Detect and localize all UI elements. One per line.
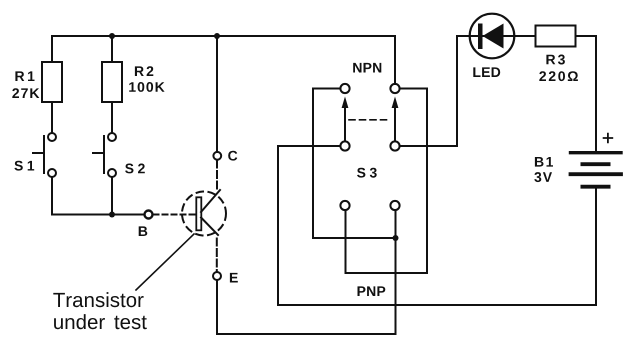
label S3 bbox=[357, 168, 377, 178]
resistor R3 bbox=[536, 26, 576, 47]
label 27K bbox=[12, 88, 39, 98]
wire S1 to base node bbox=[52, 177, 144, 215]
node junction E-net bbox=[393, 235, 399, 241]
node B terminal bbox=[145, 211, 153, 219]
wire top rail bbox=[52, 36, 395, 84]
battery B1 bbox=[571, 134, 622, 187]
wire dashed base lead bbox=[154, 214, 197, 216]
label E bbox=[230, 273, 238, 283]
wire E-net vertical bbox=[395, 210, 397, 334]
label Transistor bbox=[53, 292, 143, 307]
label R2 bbox=[135, 66, 153, 76]
label PNP bbox=[358, 286, 386, 296]
switch S2 bbox=[93, 133, 116, 177]
resistor R2 bbox=[102, 62, 122, 102]
label B1 bbox=[535, 157, 553, 167]
wire collector column stub bbox=[216, 36, 218, 152]
label B bbox=[139, 226, 148, 236]
wire right pole to LED bbox=[400, 36, 457, 146]
wire NPN-right contact to PNP-left contact bbox=[346, 89, 428, 274]
wire E to emitter net bbox=[217, 280, 396, 334]
wire R1 to S1 bbox=[51, 102, 53, 133]
label R3 bbox=[546, 55, 565, 65]
label 100K bbox=[129, 82, 164, 92]
node junction base bbox=[109, 212, 115, 218]
node junction C/top rail bbox=[214, 33, 220, 39]
wire dashed emitter lead bbox=[216, 239, 218, 272]
wire R3 to battery positive bbox=[576, 36, 597, 151]
label under test bbox=[54, 314, 147, 329]
label S1 bbox=[14, 161, 34, 171]
wire pointer to transistor bbox=[136, 234, 194, 290]
node junction R2/top rail bbox=[109, 33, 115, 39]
label 220ohm bbox=[539, 71, 578, 81]
node E terminal bbox=[213, 272, 221, 280]
wire R2 to S2 bbox=[111, 102, 113, 133]
wire R2 top stub bbox=[111, 36, 113, 62]
node C terminal bbox=[213, 152, 221, 160]
label 3V bbox=[534, 172, 552, 182]
resistor R1 bbox=[42, 62, 62, 102]
wire dashed collector lead bbox=[216, 161, 218, 193]
wire NPN-left contact to E-net bbox=[313, 89, 396, 239]
switch S3 bbox=[340, 84, 399, 210]
LED D1 bbox=[470, 14, 515, 59]
wire left pole to battery negative (bottom rail) bbox=[278, 146, 596, 305]
wire S2 to base node bbox=[111, 177, 113, 215]
label LED bbox=[473, 67, 500, 77]
wire battery negative down bbox=[595, 189, 597, 306]
switch S1 bbox=[33, 133, 56, 177]
label NPN bbox=[353, 63, 381, 73]
wire LED row bbox=[457, 35, 536, 37]
label C bbox=[228, 151, 237, 161]
transistor Q1 under test bbox=[182, 190, 226, 236]
label S2 bbox=[125, 164, 145, 174]
label R1 bbox=[15, 71, 34, 81]
